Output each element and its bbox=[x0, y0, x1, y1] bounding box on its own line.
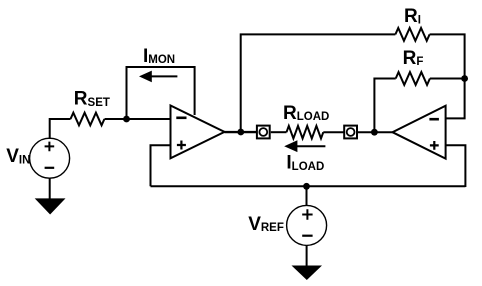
U2 non-inverting input marker bbox=[430, 141, 439, 150]
VREF minus sign bbox=[302, 235, 312, 237]
terminal square 1 bbox=[257, 126, 270, 139]
VIN minus sign bbox=[45, 167, 55, 169]
wire: VIN to ground bbox=[49, 178, 51, 199]
node B: U1 output bbox=[237, 129, 244, 136]
ground (VREF) bbox=[292, 266, 323, 281]
U1 non-inverting input marker bbox=[177, 141, 186, 150]
VREF plus sign bbox=[302, 209, 312, 219]
op-amp U1 bbox=[171, 106, 225, 159]
wire: bottom rail bbox=[151, 185, 466, 187]
terminal square 2 bbox=[344, 126, 357, 139]
VIN plus sign bbox=[45, 142, 55, 152]
svg-text:RI: RI bbox=[404, 6, 421, 27]
voltage source VREF bbox=[287, 205, 327, 245]
wire: terminal 1 to RLOAD bbox=[271, 131, 287, 133]
op-amp U2 (mirrored, output to the left) bbox=[393, 106, 446, 159]
node E: VREF junction on bottom rail bbox=[303, 183, 310, 190]
voltage source VIN bbox=[30, 138, 70, 178]
wire: RI to right vertical down to RF node bbox=[430, 34, 465, 78]
resistor RI bbox=[395, 28, 429, 41]
wire: RSET to U1 inverting input bbox=[105, 118, 171, 120]
svg-text:VIN: VIN bbox=[6, 146, 30, 167]
wire: U1 output to terminal 1 bbox=[225, 131, 258, 133]
terminal circle 2 bbox=[347, 128, 355, 136]
node D: RF / RI junction bbox=[461, 75, 468, 82]
wire: VREF to ground bbox=[306, 245, 308, 266]
wire: node C up to RF bbox=[374, 79, 395, 133]
svg-text:VREF: VREF bbox=[248, 214, 284, 235]
wire: U2 non-inverting input to bottom rail bbox=[446, 145, 466, 187]
svg-text:IMON: IMON bbox=[143, 46, 175, 67]
wire: IMON feedback loop bbox=[127, 67, 195, 119]
svg-text:RF: RF bbox=[403, 48, 424, 69]
svg-text:RLOAD: RLOAD bbox=[283, 103, 329, 124]
terminal circle 1 bbox=[259, 128, 267, 136]
wire: node D down to U2 inverting input bbox=[446, 79, 465, 119]
wire: U1 non-inverting input to bottom rail bbox=[151, 145, 171, 186]
node C: RF / U2 output junction bbox=[371, 129, 378, 136]
ground (VIN) bbox=[35, 198, 66, 214]
arrow IMON current direction bbox=[151, 75, 177, 77]
wire: RF to node D bbox=[430, 78, 465, 80]
wire: VIN top lead up to input rail bbox=[50, 119, 71, 139]
wire: node E to VREF bbox=[306, 186, 308, 205]
resistor RLOAD bbox=[287, 126, 324, 139]
resistor RSET bbox=[71, 113, 105, 126]
U1 inverting input marker bbox=[176, 117, 186, 120]
svg-text:RSET: RSET bbox=[74, 89, 110, 110]
U2 inverting input marker bbox=[429, 118, 439, 121]
wire: output node up and RI top rail bbox=[241, 34, 396, 132]
wire: RLOAD to terminal 2 bbox=[323, 131, 344, 133]
node A: RSET / IMON junction bbox=[123, 116, 130, 123]
arrow ILOAD current direction bbox=[297, 145, 326, 147]
resistor RF bbox=[396, 72, 430, 85]
wire: terminal 2 to U2 output bbox=[358, 131, 393, 133]
svg-text:ILOAD: ILOAD bbox=[286, 152, 324, 173]
